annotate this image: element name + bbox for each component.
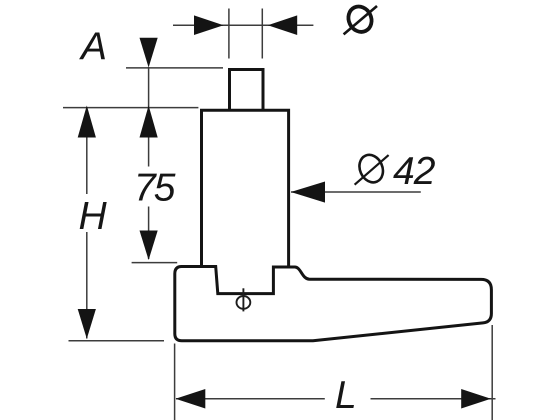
arrow L left bbox=[176, 389, 206, 409]
label diameter 42 symbol bbox=[355, 151, 389, 186]
svg-text:42: 42 bbox=[393, 150, 436, 193]
reference line H bottom bbox=[69, 340, 165, 342]
dim line A-75 bbox=[148, 67, 150, 259]
dim line L bbox=[176, 398, 496, 400]
svg-text:L: L bbox=[335, 374, 357, 417]
phi symbol stroke bbox=[242, 288, 244, 311]
arrow diameter left bbox=[194, 15, 224, 35]
label diameter top bbox=[344, 3, 377, 36]
arrow 75 up bbox=[140, 106, 158, 138]
extension line stub left bbox=[228, 9, 230, 59]
svg-text:A: A bbox=[79, 26, 107, 69]
svg-text:75: 75 bbox=[134, 167, 176, 210]
arrow diameter 42 bbox=[291, 182, 325, 203]
arrow 75 down bbox=[140, 231, 158, 261]
extension line L right bbox=[491, 325, 493, 420]
extension line stub right bbox=[261, 9, 263, 59]
arrow A down bbox=[140, 38, 158, 68]
cylinder boss bbox=[200, 110, 290, 266]
diameter dim line top bbox=[173, 24, 313, 26]
arrow diameter right bbox=[268, 15, 297, 35]
reference line cylinder top bbox=[63, 107, 198, 109]
dim line H bbox=[86, 109, 88, 339]
arrow L right bbox=[461, 389, 491, 409]
lever body outline bbox=[175, 267, 492, 341]
arrow H up bbox=[78, 106, 96, 138]
svg-text:H: H bbox=[79, 195, 108, 238]
reference tick 75 bottom bbox=[132, 262, 178, 264]
dim line diameter 42 bbox=[291, 191, 421, 193]
arrow H down bbox=[78, 309, 96, 339]
top stub bbox=[230, 70, 264, 111]
reference line A top bbox=[126, 67, 223, 69]
phi symbol circle bbox=[237, 296, 251, 309]
extension line L left bbox=[174, 344, 176, 420]
